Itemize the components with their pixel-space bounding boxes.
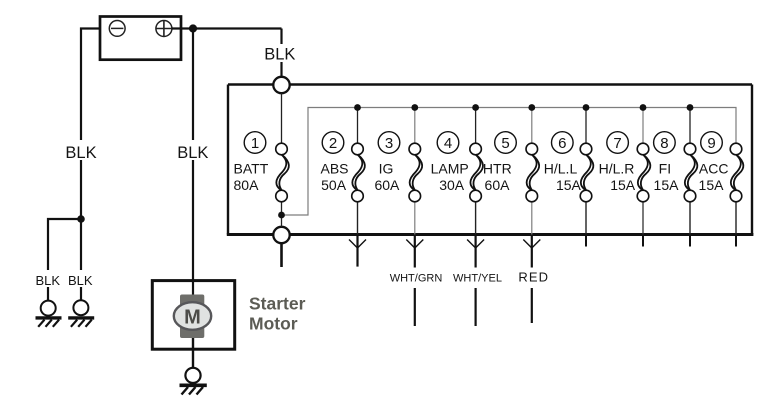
svg-text:ABS: ABS: [320, 161, 348, 177]
ground G1: [36, 301, 62, 327]
svg-text:H/L.L: H/L.L: [544, 161, 578, 177]
svg-text:2: 2: [329, 135, 337, 152]
svg-text:Motor: Motor: [249, 314, 298, 334]
svg-text:1: 1: [251, 135, 259, 152]
wire fuse 4 lower: [475, 202, 477, 235]
fuse F2: [352, 143, 365, 202]
wire fuse 8 output stub: [689, 236, 691, 247]
wire fuse 1 column: [281, 93, 283, 227]
ground G2: [68, 300, 94, 327]
wire fuse 8 tap: [689, 108, 691, 144]
node bus tap fuse 5: [528, 104, 535, 111]
wire fuse 2 lower: [357, 202, 359, 235]
wire fuse 2 tap: [357, 108, 359, 144]
svg-text:60A: 60A: [374, 177, 400, 193]
node bus tap fuse 4: [472, 104, 479, 111]
pin number 3: [378, 132, 400, 154]
svg-text:HTR: HTR: [483, 161, 512, 177]
wire fuse 6 tap: [585, 108, 587, 144]
label fuse 9 ACC 15A: [699, 161, 729, 194]
pin number 8: [654, 132, 676, 154]
wire fuse 9 lower: [735, 202, 737, 235]
svg-text:WHT/YEL: WHT/YEL: [453, 272, 502, 284]
label fuse 2 ABS 50A: [320, 161, 348, 194]
wire bus feeding fuses 2-9 (gray): [282, 108, 737, 216]
node bus tap fuse 2: [354, 104, 361, 111]
node junction at battery positive: [189, 24, 197, 32]
pin number 4: [437, 132, 459, 154]
starter motor M1: [152, 280, 234, 368]
svg-text:4: 4: [444, 135, 452, 152]
wire battery positive to fuse box and starter motor: [172, 29, 282, 294]
label RED: [516, 270, 552, 285]
svg-text:15A: 15A: [699, 177, 725, 193]
connector terminal bottom of fuse box: [273, 227, 289, 243]
node bus tap fuse 6: [583, 104, 590, 111]
wire fuse 3 tap: [414, 108, 416, 144]
svg-text:H/L.R: H/L.R: [599, 161, 635, 177]
node bus tap fuse 3: [411, 104, 418, 111]
svg-text:3: 3: [385, 135, 393, 152]
svg-text:ACC: ACC: [699, 161, 729, 177]
label fuse 3 IG 60A: [374, 161, 400, 194]
wire fuse 5 output RED with arrow: [523, 236, 540, 323]
svg-text:5: 5: [501, 135, 509, 152]
svg-text:Starter: Starter: [249, 294, 306, 314]
svg-text:6: 6: [558, 135, 566, 152]
label fuse 4 LAMP 30A: [431, 161, 469, 194]
wire fuse 5 tap: [531, 108, 533, 144]
node bus tap fuse 7: [640, 104, 647, 111]
wire fuse 8 lower: [689, 202, 691, 235]
svg-text:60A: 60A: [485, 177, 511, 193]
svg-text:BLK: BLK: [36, 273, 61, 288]
fuse F3: [409, 143, 422, 202]
label BLK ground wire 2: [66, 272, 94, 288]
label fuse 7 H/L.R 15A: [599, 161, 636, 194]
svg-text:FI: FI: [659, 161, 671, 177]
label BLK center wire: [176, 142, 210, 162]
wire fuse 3 lower: [414, 202, 416, 235]
svg-text:80A: 80A: [234, 177, 260, 193]
label BLK fuse box feed wire: [263, 44, 297, 64]
pin number 7: [607, 132, 629, 154]
svg-text:BLK: BLK: [65, 144, 96, 162]
battery BAT1: [100, 17, 181, 60]
node fuse 1 output junction: [278, 212, 285, 219]
fuse F7: [637, 143, 650, 202]
fuse F4: [470, 143, 483, 202]
label fuse 1 BATT 80A: [234, 161, 269, 194]
fuse F6: [580, 143, 593, 202]
label fuse 5 HTR 60A: [483, 161, 512, 194]
svg-text:BLK: BLK: [177, 144, 208, 162]
svg-text:50A: 50A: [321, 177, 347, 193]
wire fuse 9 output stub: [735, 236, 737, 247]
fuse box enclosure: [227, 85, 754, 235]
wire fuse 1 output stub below box: [280, 243, 283, 267]
label WHT/GRN: [387, 270, 444, 284]
svg-text:BLK: BLK: [264, 46, 295, 64]
label fuse 8 FI 15A: [654, 161, 680, 194]
label fuse 6 H/L.L 15A: [544, 161, 582, 194]
fuse F1: [276, 143, 289, 202]
svg-text:30A: 30A: [439, 177, 465, 193]
wire fuse 6 lower: [585, 202, 587, 235]
node bus tap fuse 8: [687, 104, 694, 111]
pin number 1: [244, 132, 266, 154]
svg-text:RED: RED: [518, 270, 549, 285]
svg-text:BATT: BATT: [234, 161, 269, 177]
svg-text:M: M: [184, 306, 201, 328]
fuse F9: [730, 143, 743, 202]
svg-text:15A: 15A: [610, 177, 636, 193]
svg-text:15A: 15A: [654, 177, 680, 193]
wire fuse 2 output with arrow: [349, 236, 366, 267]
label BLK left wire: [64, 142, 98, 162]
svg-text:7: 7: [613, 135, 621, 152]
pin number 5: [495, 132, 517, 154]
wire fuse 7 tap: [642, 108, 644, 144]
label BLK ground wire 1: [34, 272, 62, 288]
wire fuse 5 lower: [531, 202, 533, 235]
wire fuse 4 tap: [475, 108, 477, 144]
ground G3 starter motor: [180, 368, 207, 395]
fuse F8: [684, 143, 697, 202]
wire fuse 3 output WHT/GRN with arrow: [406, 236, 423, 326]
svg-text:BLK: BLK: [68, 273, 93, 288]
wire fuse 6 output stub: [585, 236, 587, 247]
pin number 9: [701, 132, 723, 154]
wire fuse 4 output WHT/YEL with arrow: [467, 236, 484, 326]
pin number 6: [552, 132, 574, 154]
node junction at battery negative branch: [77, 215, 85, 223]
svg-text:9: 9: [707, 135, 715, 152]
svg-text:8: 8: [660, 135, 668, 152]
wire battery negative to left ground run: [48, 29, 109, 301]
connector terminal top of fuse box: [273, 77, 289, 93]
svg-text:LAMP: LAMP: [431, 161, 469, 177]
svg-text:15A: 15A: [556, 177, 582, 193]
pin number 2: [322, 132, 344, 154]
svg-text:WHT/GRN: WHT/GRN: [390, 272, 443, 284]
wire fuse 7 output stub: [642, 236, 644, 247]
svg-text:IG: IG: [379, 161, 394, 177]
wire fuse 7 lower: [642, 202, 644, 235]
fuse F5: [526, 143, 539, 202]
label WHT/YEL: [450, 270, 506, 284]
